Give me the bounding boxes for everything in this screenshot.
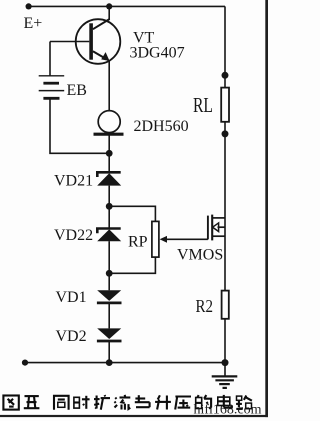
svg-text:VD21: VD21 <box>54 173 93 190</box>
node RP bottom junction <box>106 270 113 277</box>
svg-text:2DH560: 2DH560 <box>134 118 189 135</box>
resistor R2 <box>222 291 229 319</box>
wire VD22 to VD1 <box>108 241 110 290</box>
svg-text:VD1: VD1 <box>56 289 87 306</box>
node collector junction <box>106 3 112 9</box>
node RP top junction <box>106 203 113 210</box>
wire right rail middle <box>224 122 226 291</box>
wire 2DH560 to VD21 <box>108 134 110 172</box>
wire right rail lower <box>224 319 226 363</box>
wire base <box>50 41 89 43</box>
wire VD2 to bottom rail <box>108 341 110 363</box>
wire top rail E+ <box>29 5 225 7</box>
node RL bottom <box>222 130 229 137</box>
svg-text:3DG407: 3DG407 <box>130 45 185 62</box>
wire bottom rail <box>25 362 225 364</box>
char 的 <box>196 395 211 409</box>
char 升 <box>155 395 171 409</box>
right border line <box>265 0 268 417</box>
svg-text:E+: E+ <box>24 15 43 32</box>
svg-text:R2: R2 <box>196 296 214 316</box>
svg-text:EB: EB <box>67 82 87 99</box>
bottom border line <box>0 415 268 417</box>
svg-text:RP: RP <box>128 234 148 251</box>
caption 图五 同时扩流与升压的电路 (hand-drawn strokes) <box>3 395 252 410</box>
char 与 <box>135 395 150 407</box>
svg-text:VD22: VD22 <box>54 227 93 244</box>
wire VD1 to VD2 <box>108 303 110 329</box>
char 路 <box>236 396 252 409</box>
char 压 <box>175 397 191 410</box>
svg-text:RL: RL <box>193 93 213 117</box>
diode VD21 <box>97 172 121 185</box>
char 电 <box>218 395 232 408</box>
wire VD21 to VD22 <box>108 186 110 229</box>
wire RP bottom branch <box>109 257 155 273</box>
wiper arrow of RP <box>160 236 167 243</box>
wire collector stub <box>108 6 110 19</box>
transistor VMOS <box>208 215 225 241</box>
node ground junction <box>222 359 229 366</box>
char 图 <box>3 396 18 410</box>
char 时 <box>74 396 90 409</box>
node diode chain bottom <box>106 359 113 366</box>
wire RP top branch <box>109 206 155 221</box>
node RL top <box>222 72 229 79</box>
diode VD2 <box>97 328 122 341</box>
wire emitter vertical <box>108 61 110 111</box>
wire right rail upper <box>224 6 226 87</box>
diode VD1 <box>97 290 122 303</box>
char 五 <box>24 396 40 408</box>
char 扩 <box>94 395 110 410</box>
potentiometer RP <box>152 221 159 257</box>
resistor RL <box>221 88 229 122</box>
node E+ terminal <box>26 3 32 9</box>
node bottom left terminal <box>22 360 28 366</box>
char 流 <box>115 395 131 410</box>
char 同 <box>54 396 69 410</box>
battery EB <box>39 76 64 99</box>
diode VD22 <box>97 229 121 242</box>
wire battery top <box>49 42 51 76</box>
svg-text:VMOS: VMOS <box>177 247 223 264</box>
diode 2DH560 <box>94 111 124 135</box>
ground <box>212 363 238 388</box>
wire battery bottom to junction <box>50 98 109 153</box>
svg-text:VD2: VD2 <box>56 328 87 345</box>
node battery junction <box>106 150 113 157</box>
transistor VT <box>76 19 121 64</box>
wire wiper to gate <box>165 238 208 240</box>
